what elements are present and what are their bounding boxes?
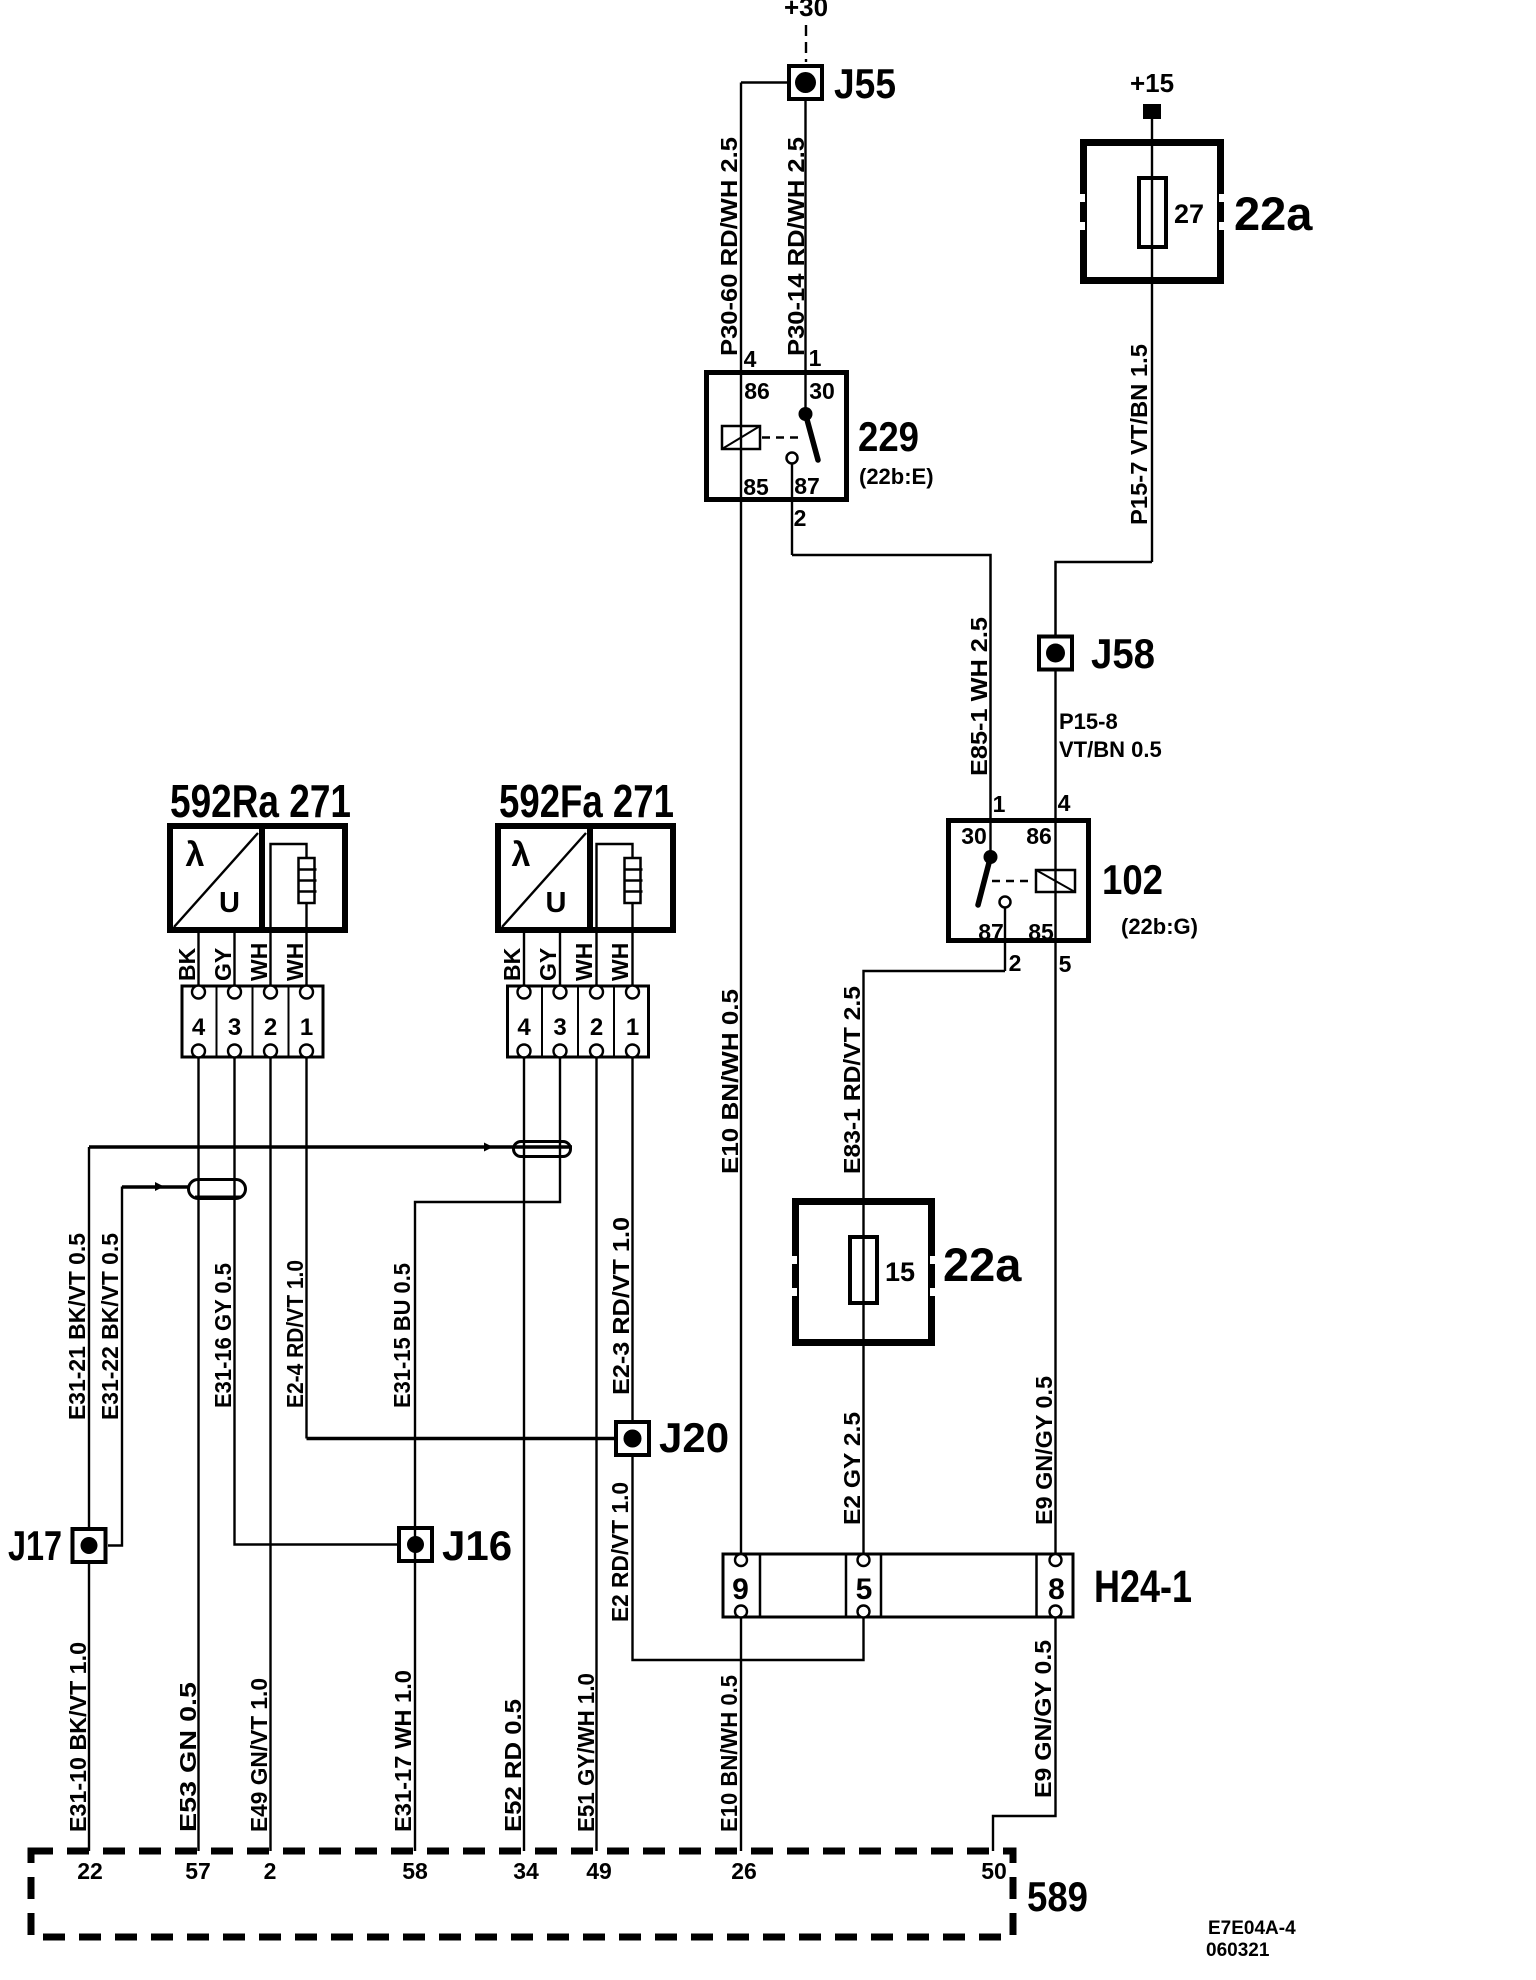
H24-1 terminal circles pin 5 (858, 1554, 870, 1618)
svg-text:1: 1 (993, 791, 1006, 817)
svg-text:3: 3 (228, 1014, 241, 1041)
svg-text:E31-22 BK/VT 0.5: E31-22 BK/VT 0.5 (97, 1233, 123, 1420)
svg-text:E31-16 GY 0.5: E31-16 GY 0.5 (210, 1263, 236, 1408)
wire label E9 GN/GY 0.5 upper (1031, 1376, 1057, 1525)
wire dashed feed from +30 to J55 (805, 25, 807, 62)
connector J58 (1039, 630, 1155, 677)
oxygen sensor 592Fa 271 (498, 775, 674, 930)
wire E31-22 BK/VT 0.5 (capsule splice to J17 right side) (97, 1187, 190, 1546)
wire label E10 BN/WH 0.5 upper (717, 989, 743, 1174)
connector J16 (399, 1522, 512, 1569)
svg-text:2: 2 (794, 505, 807, 531)
589 pin 58 (402, 1858, 428, 1884)
svg-text:WH: WH (246, 943, 272, 981)
svg-text:BK: BK (174, 947, 200, 981)
svg-text:(22b:G): (22b:G) (1121, 914, 1198, 939)
svg-text:E53 GN 0.5: E53 GN 0.5 (175, 1682, 201, 1832)
svg-text:229: 229 (858, 413, 919, 460)
svg-text:1: 1 (300, 1014, 313, 1041)
fuse 15 element (850, 1237, 1022, 1303)
sensor Ra lead wires BK GY WH WH (174, 930, 308, 986)
svg-text:4: 4 (192, 1014, 206, 1041)
sensor Fa lambda cell (502, 833, 586, 927)
589 pin 49 (586, 1858, 612, 1884)
svg-text:E51 GY/WH 1.0: E51 GY/WH 1.0 (573, 1673, 599, 1832)
sensor Ra heater element (271, 844, 317, 930)
svg-text:+15: +15 (1130, 68, 1174, 98)
svg-text:E2-4 RD/VT 1.0: E2-4 RD/VT 1.0 (282, 1260, 308, 1408)
svg-text:5: 5 (1059, 951, 1072, 977)
svg-text:4: 4 (744, 346, 757, 372)
relay 229 switch contact 30-87 (787, 407, 819, 464)
svg-text:U: U (219, 887, 240, 919)
svg-text:E2 GY 2.5: E2 GY 2.5 (839, 1412, 865, 1525)
node +30 supply (784, 0, 828, 22)
shield capsule at 592Fa pins 4-3 (514, 1142, 571, 1157)
svg-text:592Ra 271: 592Ra 271 (170, 775, 351, 827)
svg-text:15: 15 (885, 1257, 915, 1287)
sensor Fa heater element (597, 844, 643, 930)
svg-text:J17: J17 (8, 1522, 62, 1569)
relay 102 coil (1036, 870, 1075, 892)
svg-text:E85-1 WH 2.5: E85-1 WH 2.5 (966, 617, 992, 776)
svg-text:34: 34 (513, 1858, 539, 1884)
svg-text:P15-8: P15-8 (1059, 709, 1118, 734)
svg-text:(22b:E): (22b:E) (859, 464, 934, 489)
wire E31-15 BU 0.5 (592Fa pin 3 through J16 to 589 pin 58) (389, 1058, 560, 1852)
svg-text:30: 30 (961, 823, 987, 849)
fuse 27 element (1139, 178, 1313, 247)
svg-text:589: 589 (1027, 1873, 1088, 1920)
svg-text:1: 1 (809, 345, 822, 371)
drawing number (1206, 1918, 1296, 1961)
svg-text:E49 GN/VT 1.0: E49 GN/VT 1.0 (246, 1678, 272, 1832)
wire E2-3 RD/VT 1.0 (592Fa pin 1 to J20) (608, 1058, 634, 1423)
svg-text:J58: J58 (1091, 630, 1155, 677)
arrow on capsule splice wire 2 (155, 1182, 164, 1191)
relay 102 dashed actuator link (992, 880, 1034, 882)
wire P15-8 VT/BN 0.5 (J58 to relay 102 pin 4/86 and down to H24-1 pin 8) (1056, 669, 1162, 1554)
svg-text:H24-1: H24-1 (1094, 1561, 1192, 1612)
H24-1 terminal circles pin 8 (1050, 1554, 1062, 1618)
shield capsule at 592Ra pins 4-3 (189, 1180, 246, 1199)
589 pin 50 (981, 1858, 1007, 1884)
wire E83-1 RD/VT 2.5 (relay 102 pin 2 down through fuse 15 to H24-1 pin 5) (839, 971, 1005, 1554)
svg-text:E31-15 BU 0.5: E31-15 BU 0.5 (389, 1263, 415, 1408)
svg-text:E31-10 BK/VT 1.0: E31-10 BK/VT 1.0 (65, 1642, 91, 1832)
svg-text:4: 4 (1058, 790, 1071, 816)
svg-text:49: 49 (586, 1858, 612, 1884)
ECU 589 dashed box (31, 1851, 1088, 1937)
svg-text:P15-7 VT/BN 1.5: P15-7 VT/BN 1.5 (1126, 344, 1152, 525)
svg-text:BK: BK (499, 947, 525, 981)
oxygen sensor 592Ra 271 (170, 775, 351, 930)
svg-text:J20: J20 (659, 1414, 729, 1461)
svg-text:WH: WH (282, 943, 308, 981)
svg-text:4: 4 (517, 1014, 531, 1041)
svg-text:22a: 22a (1234, 187, 1313, 240)
sensor Ra lambda cell (174, 833, 258, 927)
svg-text:2: 2 (1009, 950, 1022, 976)
svg-text:1: 1 (626, 1014, 639, 1041)
svg-text:87: 87 (978, 919, 1004, 945)
sensor Ra connector block pins 4 3 2 1 (182, 986, 323, 1058)
wire label E2 RD/VT 1.0 below J20 (607, 1482, 633, 1622)
svg-text:22: 22 (77, 1858, 103, 1884)
node +15 supply (1130, 68, 1174, 119)
wire E49 GN/VT 1.0 (592Ra pin 2 to 589 pin 2) (246, 1058, 272, 1852)
svg-text:GY: GY (210, 948, 236, 981)
wire E2-4 RD/VT 1.0 (592Ra pin 1 to J20) (282, 1058, 616, 1439)
wire E31-10 BK/VT 1.0 (J17 to 589 pin 22) (65, 1562, 91, 1851)
wire E31-16 GY 0.5 (592Ra pin 3 to J16) (210, 1058, 398, 1545)
svg-text:2: 2 (264, 1014, 277, 1041)
wire E51 GY/WH 1.0 (592Fa pin 2 to 589 pin 49) (573, 1058, 599, 1852)
svg-text:U: U (546, 887, 567, 919)
relay 229 coil (722, 426, 760, 449)
svg-text:9: 9 (732, 1573, 749, 1606)
svg-text:27: 27 (1174, 199, 1204, 229)
wire E2 link (J20 lower wire to H24-1 pin 5 bottom) (633, 1457, 864, 1660)
wire J55 to left branch (741, 81, 789, 83)
wire P30-14 RD/WH 2.5 (J55 down to relay 229 pin 1/30) (783, 99, 809, 414)
wire P15-7 VT/BN 1.5 (+15 through fuse 27 down to J58 corner) (1126, 119, 1152, 562)
sensor Fa lead wires BK GY WH WH (499, 930, 633, 986)
wire E31-21 BK/VT 0.5 (capsule splice to J17 and down) (64, 1147, 572, 1529)
svg-text:30: 30 (809, 378, 835, 404)
wire E52 RD 0.5 (592Fa pin 4 to 589 pin 34) (500, 1058, 526, 1852)
svg-text:86: 86 (1026, 823, 1052, 849)
H24-1 terminal circles pin 9 (735, 1554, 747, 1618)
connector H24-1 (723, 1554, 1192, 1617)
svg-text:E9 GN/GY 0.5: E9 GN/GY 0.5 (1031, 1376, 1057, 1525)
589 pin 57 (185, 1858, 211, 1884)
svg-text:λ: λ (512, 836, 531, 874)
svg-text:E83-1 RD/VT 2.5: E83-1 RD/VT 2.5 (839, 986, 865, 1174)
relay 102 switch contact 30-87 (978, 850, 1011, 908)
svg-text:WH: WH (607, 943, 633, 981)
svg-text:3: 3 (553, 1014, 566, 1041)
svg-text:E2 RD/VT 1.0: E2 RD/VT 1.0 (607, 1482, 633, 1622)
svg-text:WH: WH (571, 943, 597, 981)
svg-text:8: 8 (1048, 1573, 1065, 1606)
svg-text:50: 50 (981, 1858, 1007, 1884)
svg-text:22a: 22a (943, 1238, 1022, 1291)
wire relay 229 pin 87/2 (792, 464, 806, 556)
svg-text:E10 BN/WH 0.5: E10 BN/WH 0.5 (717, 989, 743, 1174)
svg-text:57: 57 (185, 1858, 211, 1884)
589 pin 22 (77, 1858, 103, 1884)
svg-text:5: 5 (856, 1573, 873, 1606)
svg-text:2: 2 (264, 1858, 277, 1884)
svg-text:2: 2 (590, 1014, 603, 1041)
wire P30-60 RD/WH 2.5 (J55 down through relay 229 pins 4/86-85 to H24-1 pin 9) (716, 83, 742, 1555)
wire E85-1 WH 2.5 into relay 102 pin 1/30 (966, 617, 992, 857)
svg-text:060321: 060321 (1206, 1940, 1270, 1961)
svg-text:E2-3 RD/VT 1.0: E2-3 RD/VT 1.0 (608, 1217, 634, 1395)
svg-text:58: 58 (402, 1858, 428, 1884)
svg-text:J55: J55 (834, 60, 896, 107)
wire E9 GN/GY 0.5 lower (H24-1 pin 8 to 589 pin 50) (993, 1618, 1056, 1852)
wire relay 229 pin 2 to node E85 (792, 555, 991, 820)
relay 229 dashed actuator link (762, 436, 800, 438)
svg-text:E9 GN/GY 0.5: E9 GN/GY 0.5 (1030, 1640, 1056, 1798)
svg-text:85: 85 (743, 474, 769, 500)
svg-text:102: 102 (1102, 856, 1163, 903)
svg-text:λ: λ (186, 836, 205, 874)
svg-text:26: 26 (731, 1858, 757, 1884)
wire relay 102 pin 87/2 (1005, 908, 1072, 978)
sensor Fa connector block pins 4 3 2 1 (508, 986, 649, 1058)
wire label E2 GY 2.5 (839, 1412, 865, 1525)
svg-text:E31-21 BK/VT 0.5: E31-21 BK/VT 0.5 (64, 1233, 90, 1420)
svg-text:+30: +30 (784, 0, 828, 22)
relay 229 (22b:E) (707, 345, 934, 500)
svg-text:87: 87 (794, 473, 820, 499)
589 pin 34 (513, 1858, 539, 1884)
fuse box 22a with fuse 27 (1076, 143, 1228, 281)
svg-text:P30-60 RD/WH 2.5: P30-60 RD/WH 2.5 (716, 137, 742, 356)
connector J20 (616, 1414, 729, 1461)
svg-text:P30-14 RD/WH 2.5: P30-14 RD/WH 2.5 (783, 137, 809, 356)
svg-text:85: 85 (1028, 919, 1054, 945)
svg-text:J16: J16 (442, 1522, 512, 1569)
arrow on capsule splice wire (484, 1143, 493, 1152)
svg-text:GY: GY (535, 948, 561, 981)
svg-text:E7E04A-4: E7E04A-4 (1208, 1918, 1296, 1939)
svg-text:E52 RD 0.5: E52 RD 0.5 (500, 1699, 526, 1832)
svg-text:592Fa 271: 592Fa 271 (499, 775, 674, 827)
589 pin 26 (731, 1858, 757, 1884)
wire E10 BN/WH 0.5 lower (H24-1 pin 9 to 589 pin 26) (716, 1618, 742, 1852)
wire corner to J58 (1056, 562, 1153, 636)
connector J17 (8, 1522, 106, 1569)
wire E53 GN 0.5 (592Ra pin 4 to 589 pin 57) (175, 1058, 201, 1852)
svg-text:VT/BN 0.5: VT/BN 0.5 (1059, 737, 1162, 762)
connector J55 (789, 60, 896, 107)
589 pin 2 (264, 1858, 277, 1884)
svg-text:E31-17 WH 1.0: E31-17 WH 1.0 (390, 1670, 416, 1832)
fuse box 22a with fuse 15 (788, 1202, 939, 1343)
relay 102 (22b:G) (949, 790, 1199, 945)
svg-text:E10 BN/WH 0.5: E10 BN/WH 0.5 (716, 1675, 742, 1832)
svg-text:86: 86 (744, 378, 770, 404)
